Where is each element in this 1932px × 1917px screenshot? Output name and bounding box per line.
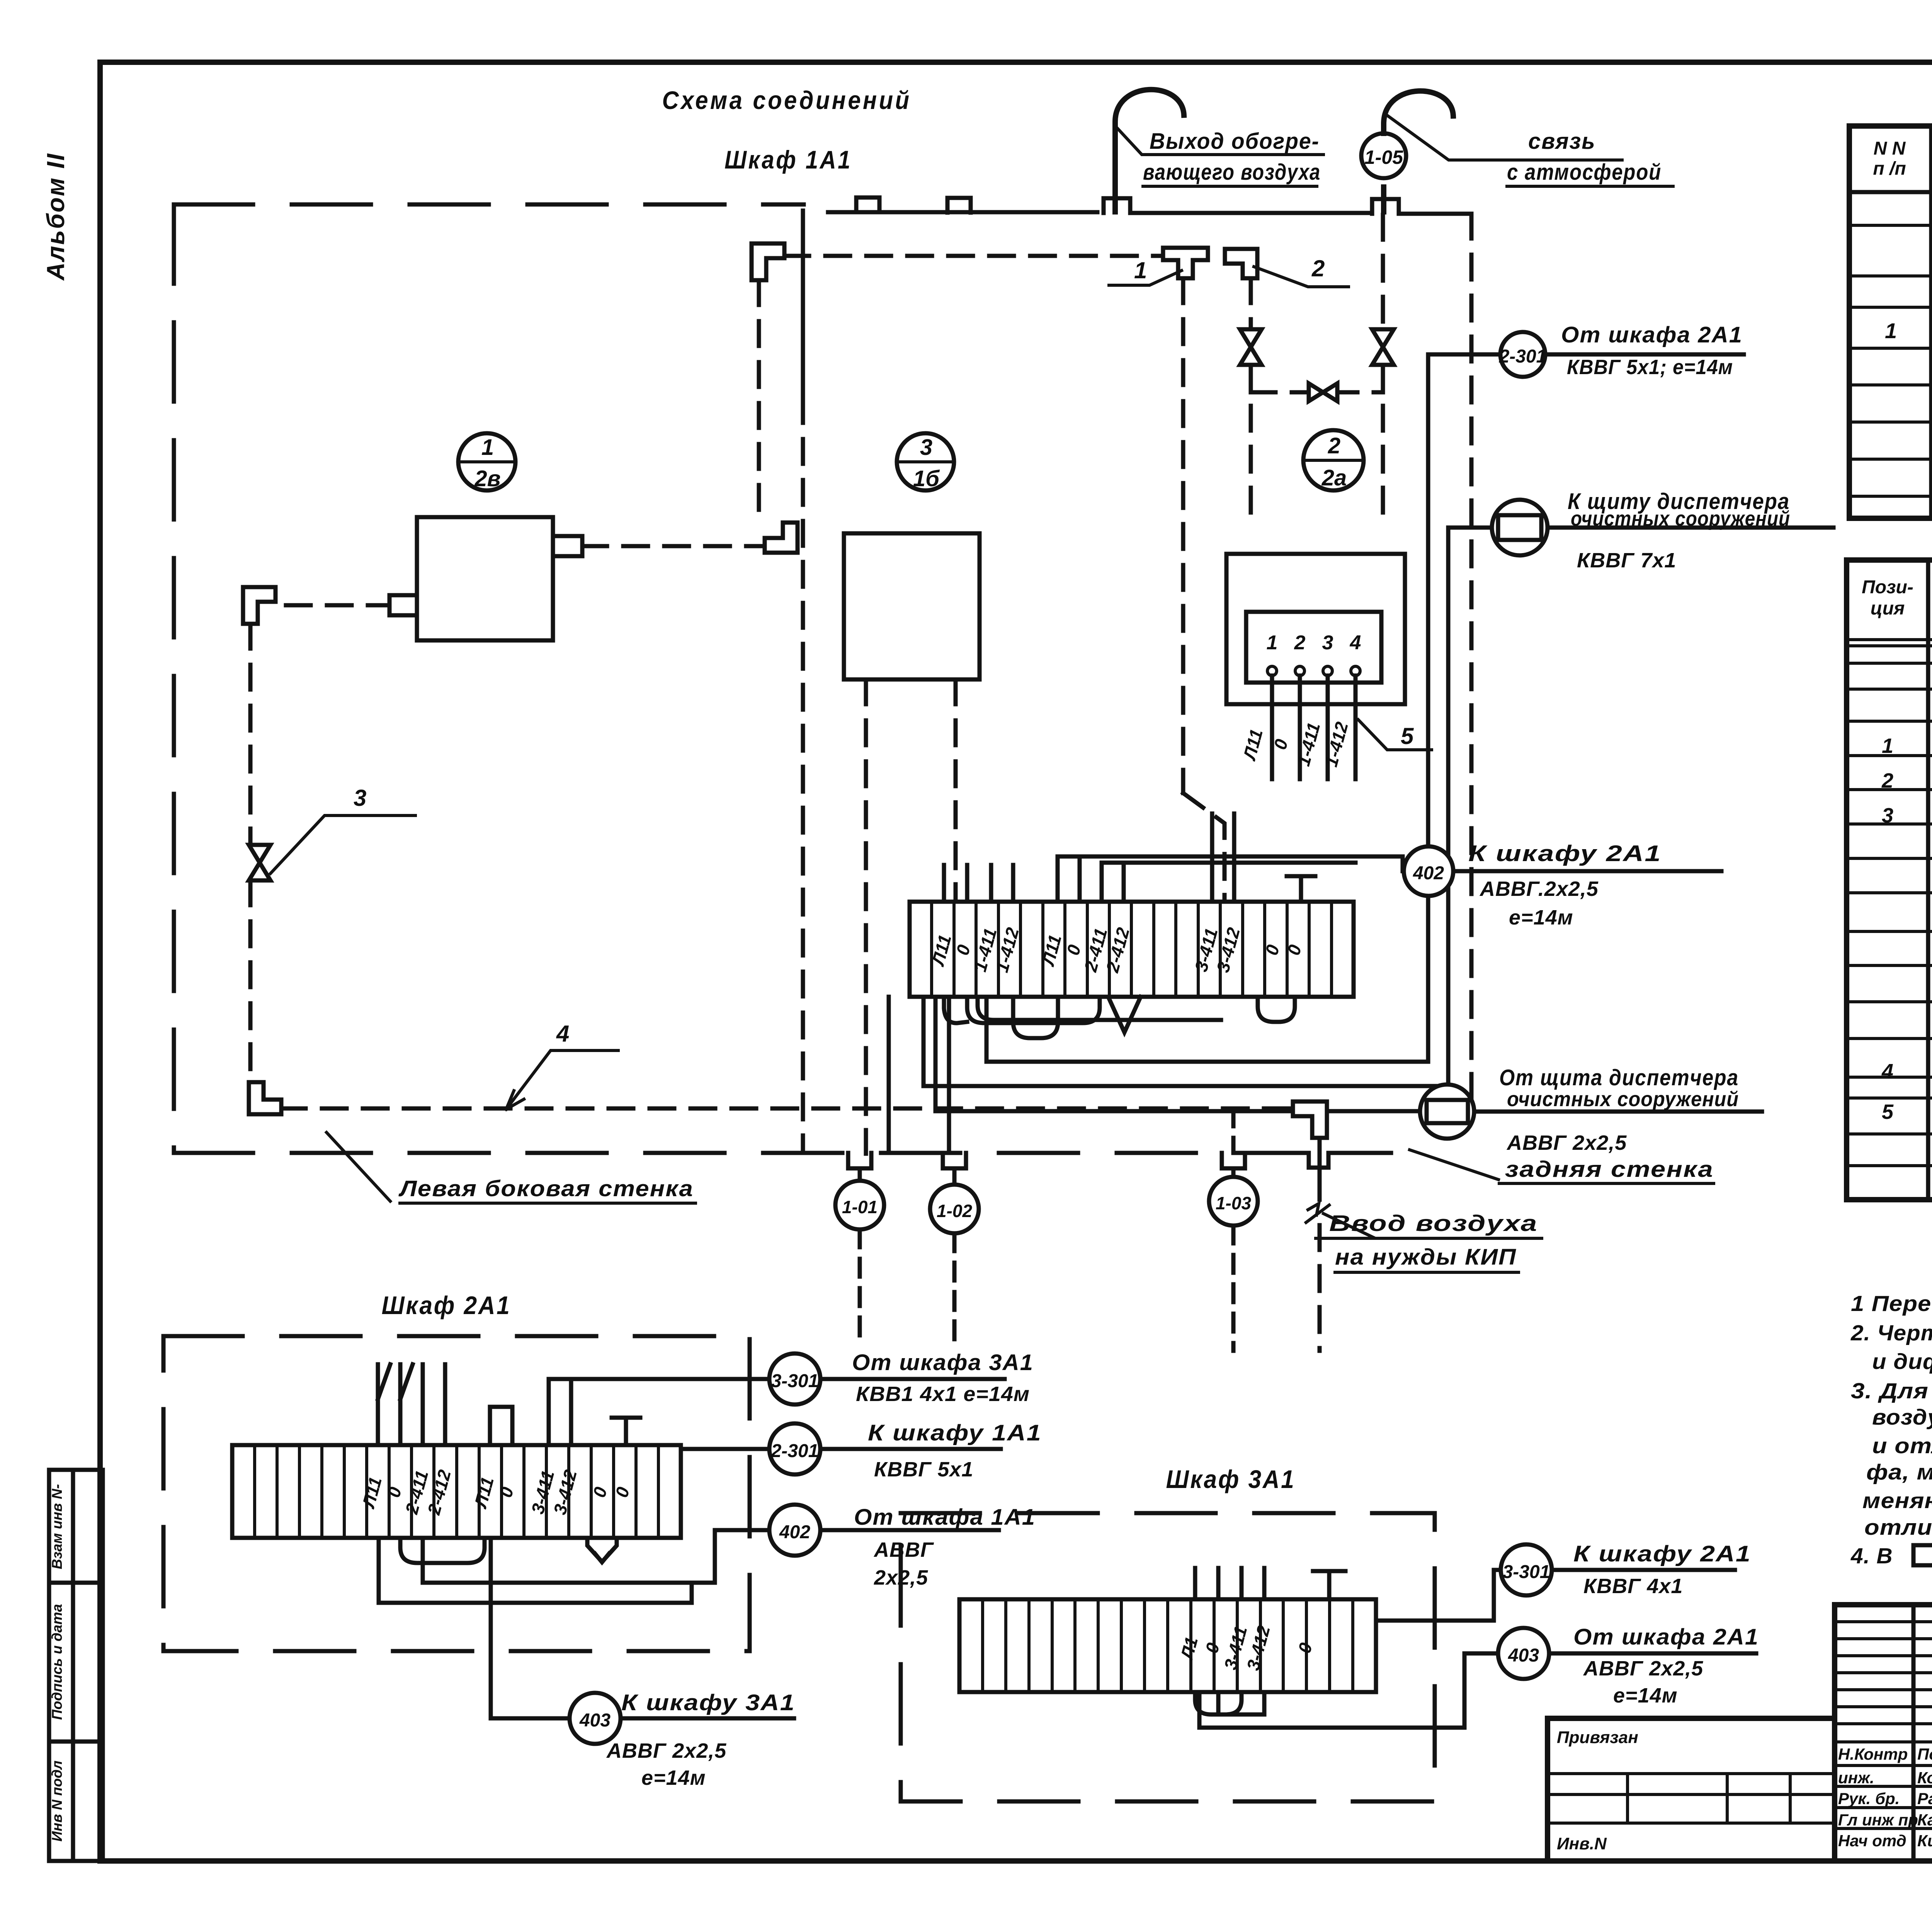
connector circle 3-301 (2A1) (769, 1353, 1005, 1405)
impulse tube box1 to elbow (582, 544, 765, 548)
svg-text:Кильметов: Кильметов (1917, 1832, 1932, 1850)
inner terminal box (1246, 612, 1381, 683)
wire bus B under XT2 (379, 1538, 692, 1603)
connector circle 403 (3A1) (1498, 1628, 1756, 1679)
svg-text:4: 4 (1881, 1060, 1893, 1083)
wall tab (1104, 198, 1130, 213)
table2 header texts (1862, 577, 1932, 619)
wire loop under XT1 b (967, 997, 1100, 1023)
svg-text:2: 2 (1294, 632, 1306, 654)
pin 1 (1267, 666, 1277, 676)
valve pos.3 left (1240, 329, 1262, 365)
impulse tube below valve (1249, 365, 1253, 514)
wire under XT3 to 403 (1199, 1653, 1498, 1728)
svg-text:е=14м: е=14м (1509, 906, 1573, 929)
left margin stamp strip (49, 1470, 103, 1861)
T-bar above XT3 (1313, 1571, 1345, 1599)
gooseneck2 label leader (1388, 116, 1622, 160)
label svyaz s atmosferoy (1507, 129, 1673, 186)
svg-text:связь: связь (1528, 129, 1596, 154)
svg-text:е=14м: е=14м (641, 1766, 706, 1789)
pin wire labels (1239, 720, 1352, 769)
connector circle ot shchita (rect symbol) (1420, 1084, 1762, 1139)
connector circle to dispatcher shield (1448, 500, 1833, 555)
label ot shkafa 1A1 (854, 1505, 1036, 1589)
impulse tube tee down (1181, 278, 1185, 793)
T-bar symbol above XT1 (1287, 876, 1315, 902)
label k shkafu 3A1 (606, 1690, 795, 1789)
T-bar above XT2 (612, 1418, 640, 1445)
component 1 box (difmanometer) (417, 517, 553, 640)
notes text block (1850, 1291, 1932, 1568)
svg-text:К шкафу 2А1: К шкафу 2А1 (1573, 1541, 1751, 1566)
svg-text:3: 3 (1882, 804, 1893, 827)
svg-text:отличаются количеством: отличаются количеством и номерами отходя… (1864, 1515, 1932, 1540)
impulse tube cross link (1251, 390, 1383, 395)
label k shchitu dispetchera (1568, 489, 1790, 572)
svg-text:инж.: инж. (1838, 1769, 1874, 1787)
wire risers to bus1 (1058, 856, 1080, 902)
bottom wall tab 1-01 (848, 1153, 871, 1168)
svg-text:п /п: п /п (1873, 158, 1906, 179)
terminal labels XT1 (927, 925, 1305, 975)
wires above XT2 (378, 1364, 445, 1445)
svg-text:Выход обогре-: Выход обогре- (1150, 129, 1320, 154)
svg-text:АВВГ 2х2,5: АВВГ 2х2,5 (1583, 1657, 1703, 1680)
wire bus2 (1102, 861, 1355, 865)
gooseneck vent pipe 1 (1115, 90, 1184, 212)
callout circle 3/1b (897, 433, 954, 491)
cabinet 1A1 partition wall (801, 211, 805, 398)
elbow fitting right of tee (pos.2) (1225, 249, 1257, 278)
wire XT3 to 3-301 (1376, 1570, 1501, 1621)
wire XT2 to 2-301 (681, 1447, 769, 1451)
connector circle 1-02 (930, 1168, 979, 1341)
pin wire 1-412 (1354, 676, 1358, 779)
impulse tube left vertical lower (248, 880, 253, 1082)
svg-text:От щита диспетчера: От щита диспетчера (1499, 1065, 1739, 1090)
svg-text:с атмосферой: с атмосферой (1507, 160, 1662, 185)
gooseneck 2 upper (1384, 91, 1453, 133)
elbow fitting top left (pos.2) (752, 243, 784, 280)
terminal labels XT3 (1176, 1623, 1316, 1673)
svg-text:1: 1 (481, 435, 494, 460)
label 4 leader (506, 1021, 618, 1109)
wire XT2 to 403 (491, 1538, 570, 1718)
pin 2 (1295, 666, 1304, 676)
svg-text:КВВГ 4х1: КВВГ 4х1 (1583, 1575, 1683, 1598)
wire vee under XT1 (1108, 997, 1141, 1032)
privyazan box (1548, 1718, 1835, 1861)
impulse tube elbow2 down (1249, 278, 1253, 329)
impulse tube box1 left (286, 603, 389, 608)
svg-text:4. В: 4. В (1850, 1544, 1893, 1568)
rear wall notch at air inlet (1309, 1153, 1391, 1168)
terminal strip XT1 (910, 902, 1354, 997)
impulse tube vertical between elbows (757, 280, 761, 523)
svg-text:402: 402 (1413, 863, 1444, 884)
label k shkafu 2A1 (1468, 841, 1662, 929)
svg-text:Рук. бр.: Рук. бр. (1838, 1789, 1900, 1808)
wire stubs above XT1 (944, 865, 1013, 902)
svg-text:Шкаф 1А1: Шкаф 1А1 (724, 145, 852, 174)
svg-text:очистных сооружений: очистных сооружений (1507, 1088, 1739, 1111)
label 3 leader (270, 785, 415, 873)
svg-text:3-301: 3-301 (1503, 1562, 1550, 1582)
svg-text:АВВГ 2х2,5: АВВГ 2х2,5 (1506, 1131, 1627, 1154)
svg-text:АВВГ 2х2,5: АВВГ 2х2,5 (606, 1739, 726, 1762)
svg-text:1-01: 1-01 (842, 1197, 878, 1217)
svg-text:3: 3 (1322, 632, 1333, 654)
wall tab (856, 197, 879, 212)
valve pos.3 horizontal (1309, 383, 1337, 401)
svg-text:1б: 1б (913, 466, 940, 491)
svg-text:2-301: 2-301 (1499, 346, 1547, 367)
svg-text:4: 4 (1350, 632, 1361, 654)
svg-text:Альбом II: Альбом II (42, 153, 70, 281)
svg-text:1: 1 (1267, 632, 1278, 654)
connector circle 2-301 (1428, 332, 1744, 377)
label k shkafu 2A1 (3A1) (1573, 1541, 1751, 1598)
svg-text:1-03: 1-03 (1216, 1193, 1251, 1213)
wall tab (1372, 199, 1399, 214)
svg-text:Инв.N: Инв.N (1557, 1834, 1607, 1853)
svg-text:К шкафу 2А1: К шкафу 2А1 (1468, 841, 1662, 866)
wire jogs above XT2 (378, 1364, 413, 1399)
title block central column (1835, 1605, 1932, 1861)
wire loop under XT1 c (1013, 997, 1058, 1038)
svg-text:Н.Контр: Н.Контр (1838, 1745, 1908, 1763)
svg-text:КВВ1 4х1 е=14м: КВВ1 4х1 е=14м (856, 1382, 1030, 1406)
cabinet right wall dashed (1469, 214, 1474, 1108)
elbow fitting left (pos.2) (243, 587, 276, 624)
wire arrow under XT2 (587, 1538, 617, 1562)
svg-text:3-301: 3-301 (771, 1371, 819, 1391)
table2 data rows (1881, 733, 1932, 905)
pin numbers (1267, 632, 1361, 654)
impulse tube from box3 left (864, 679, 868, 1154)
svg-text:Левая боковая стенка: Левая боковая стенка (398, 1176, 694, 1201)
svg-text:воздухе и дифманометром на: воздухе и дифманометром на иловой смеси … (1872, 1405, 1932, 1430)
impulse tube right vertical (1381, 215, 1385, 514)
component 2 box (difmanometer 2) (1226, 554, 1405, 704)
svg-text:От шкафа 3А1: От шкафа 3А1 (852, 1350, 1034, 1375)
svg-text:АВВГ: АВВГ (873, 1538, 934, 1561)
connector circle 2-301 (2A1) (769, 1423, 1001, 1474)
wire bus4 under XT1 (986, 354, 1428, 1062)
pin 3 (1323, 666, 1332, 676)
svg-text:2: 2 (1881, 769, 1893, 792)
wire stub under XT3 (1218, 1692, 1264, 1714)
box1 right stub (553, 536, 582, 556)
svg-text:N N: N N (1874, 138, 1906, 159)
wire risers above XT2 (490, 1407, 512, 1445)
svg-text:403: 403 (1508, 1645, 1539, 1666)
svg-text:2. Чертеж выполнен для шкафа: 2. Чертеж выполнен для шкафа 1А1 с дифма… (1850, 1321, 1932, 1345)
wire risers mid pair (1212, 814, 1234, 902)
svg-text:Шкаф 2А1: Шкаф 2А1 (382, 1291, 511, 1319)
svg-text:ция: ция (1871, 598, 1905, 619)
svg-text:402: 402 (779, 1522, 810, 1542)
impulse tube elbow to tee (784, 254, 1161, 258)
table1 row 1 texts (1885, 318, 1932, 457)
svg-text:Позднякова: Позднякова (1917, 1745, 1932, 1763)
svg-text:и отличаются цифровой ин: и отличаются цифровой индексацией в нача… (1872, 1433, 1932, 1458)
svg-text:Нач отд: Нач отд (1838, 1832, 1906, 1850)
connector circle 1-05 (1361, 133, 1406, 178)
label ot shkafa 2A1 (1561, 322, 1743, 379)
signature names (1838, 1745, 1932, 1850)
svg-text:Инв N подл: Инв N подл (49, 1760, 65, 1842)
connector circle 403 (2A1) (570, 1693, 794, 1744)
svg-text:Гл инж пр: Гл инж пр (1838, 1811, 1918, 1829)
svg-text:К шкафу 1А1: К шкафу 1А1 (868, 1420, 1042, 1445)
label 1 leader (1109, 257, 1182, 285)
svg-text:КВВГ 5х1; е=14м: КВВГ 5х1; е=14м (1567, 356, 1733, 379)
cabinet top solid wall (828, 212, 1471, 214)
svg-text:Радюшкин: Радюшкин (1917, 1789, 1932, 1808)
label ot shchita dispetchera (1499, 1065, 1739, 1154)
equipment table top right (1849, 126, 1932, 518)
svg-text:очистных сооружений: очистных сооружений (1571, 507, 1790, 530)
impulse tube from box3 right (954, 679, 958, 902)
wall tab (947, 198, 971, 213)
svg-text:Капатульский: Капатульский (1917, 1811, 1932, 1829)
connector circle 402 (1404, 846, 1453, 896)
terminal labels XT2 (358, 1468, 633, 1517)
svg-text:1: 1 (1882, 734, 1893, 758)
pin wire 1-411 (1326, 676, 1330, 779)
tee fitting (pos.1) (1163, 248, 1208, 278)
impulse tube left vertical upper (248, 624, 253, 845)
materials table right (1847, 560, 1932, 1200)
svg-text:фа, маркировкой жил кабел: фа, маркировкой жил кабелей и импульсных… (1866, 1460, 1932, 1485)
svg-text:вающего воздуха: вающего воздуха (1143, 160, 1321, 185)
wire XT1 to connector 1-01 (887, 997, 891, 1153)
svg-text:2: 2 (1328, 433, 1340, 458)
label k shkafu 1A1 (868, 1420, 1042, 1481)
air inlet arrow mark (1306, 1204, 1329, 1222)
svg-text:К шкафу 3А1: К шкафу 3А1 (621, 1690, 795, 1715)
svg-text:Шкаф 3А1: Шкаф 3А1 (1166, 1465, 1296, 1493)
wire loops under XT3 (1195, 1692, 1242, 1714)
label zadnyaya stenka (1410, 1150, 1714, 1183)
wire loop under XT1 d (1258, 997, 1295, 1022)
wire loop under XT2 (400, 1538, 485, 1563)
valve pos.3 right (1372, 329, 1394, 365)
svg-text:Козлов: Козлов (1917, 1769, 1932, 1787)
connector circle 1-01 (835, 1168, 884, 1337)
wire bus A under XT2 (423, 1530, 769, 1583)
svg-text:3: 3 (354, 785, 366, 811)
wire bus1 to circle 402 (1058, 856, 1721, 871)
svg-text:КВВГ 7х1: КВВГ 7х1 (1577, 549, 1676, 572)
gooseneck1 label leader (1117, 128, 1323, 155)
valve 3 on left tube (249, 845, 270, 880)
connector circle 402 (2A1) (769, 1505, 999, 1556)
impulse tube dogleg (1183, 793, 1225, 902)
table2 materials rows (1881, 1060, 1932, 1163)
svg-text:е=14м: е=14м (1613, 1684, 1678, 1707)
svg-text:меняются на соответствующи: меняются на соответствующий номер секции… (1862, 1488, 1932, 1513)
box1 left stub (389, 595, 417, 615)
rear wall inner dashed (281, 1107, 1293, 1111)
label 2 leader (1254, 255, 1349, 287)
label ot shkafa 2A1 (3A1) (1573, 1624, 1759, 1707)
svg-text:2: 2 (1311, 255, 1325, 281)
wire XT1 to connector 1-02 (947, 997, 951, 1153)
elbow fitting air inlet (1293, 1102, 1327, 1138)
svg-text:КВВГ 5х1: КВВГ 5х1 (874, 1458, 973, 1481)
cabinet 2A1 dashed outline (163, 1336, 750, 1651)
air inlet tube (1318, 1138, 1322, 1175)
svg-text:1 Перечень изделий и ма: 1 Перечень изделий и материалов приведен… (1851, 1291, 1932, 1316)
label vvod vozduha (1316, 1211, 1542, 1272)
callout circle 1/2v (458, 433, 515, 491)
svg-text:и дифманометром на иловой: и дифманометром на иловой смеси для секц… (1872, 1349, 1932, 1374)
svg-text:на нужды КИП: на нужды КИП (1335, 1245, 1517, 1270)
wire risers to bus2 (1102, 863, 1124, 902)
svg-text:5: 5 (1882, 1100, 1894, 1124)
wire bus5 under XT1 (923, 528, 1448, 1086)
component 3 box (844, 533, 980, 679)
label ot shkafa 3A1 (852, 1350, 1034, 1406)
wire bus3 under XT1 (978, 997, 1221, 1020)
svg-text:1: 1 (1134, 257, 1147, 283)
svg-text:4: 4 (556, 1021, 569, 1047)
wire bus to 3-301 (549, 1379, 769, 1445)
pin 4 (1351, 666, 1360, 676)
svg-text:2в: 2в (474, 466, 500, 491)
svg-text:5: 5 (1401, 723, 1414, 749)
elbow fitting bottom-left (pos.2) (249, 1082, 281, 1114)
svg-text:2а: 2а (1321, 465, 1347, 490)
svg-text:3. Для 2 и 3 секций аэроте: 3. Для 2 и 3 секций аэротенков шкафы с д… (1851, 1379, 1932, 1403)
svg-text:АВВГ.2х2,5: АВВГ.2х2,5 (1479, 877, 1599, 901)
gooseneck vent pipe 2 lower dashed (1381, 178, 1386, 212)
terminal strip XT2 (232, 1445, 681, 1538)
callout circle 2/2a (1303, 430, 1364, 490)
svg-text:3: 3 (920, 435, 932, 460)
svg-text:задняя стенка: задняя стенка (1505, 1157, 1714, 1182)
cabinet 1A1 dashed outline (174, 204, 1306, 1153)
label 5 leader (1358, 720, 1432, 750)
svg-text:От шкафа 1А1: От шкафа 1А1 (854, 1505, 1036, 1530)
label vyhod vozduha (1143, 129, 1321, 186)
wire to shield circle (935, 997, 1419, 1111)
svg-text:От шкафа 2А1: От шкафа 2А1 (1561, 322, 1743, 347)
svg-text:Подпись и дата: Подпись и дата (49, 1604, 65, 1720)
svg-text:Схема соединений: Схема соединений (662, 86, 912, 114)
svg-text:1-02: 1-02 (937, 1201, 972, 1221)
wire loop under XT1 a (944, 997, 967, 1023)
table1 header texts (1873, 134, 1932, 187)
connector circle 1-03 (1209, 1108, 1258, 1351)
svg-text:403: 403 (579, 1710, 611, 1731)
wires above XT3 (1195, 1568, 1264, 1599)
svg-text:2-301: 2-301 (771, 1441, 819, 1461)
terminal strip XT3 (959, 1599, 1376, 1692)
svg-text:От шкафа 2А1: От шкафа 2А1 (1573, 1624, 1759, 1650)
pin wire 0 (1298, 676, 1302, 779)
elbow fitting mid (pos.2) (765, 523, 798, 553)
cabinet 3A1 dashed outline (901, 1513, 1435, 1801)
svg-text:1: 1 (1885, 318, 1897, 343)
pin wire L11 (1270, 676, 1274, 779)
bottom wall tab 1-02 (943, 1153, 966, 1168)
svg-text:Пози-: Пози- (1862, 577, 1913, 598)
svg-text:Взам инв N-: Взам инв N- (49, 1484, 65, 1569)
bottom wall tab 1-03 (1222, 1153, 1245, 1168)
svg-text:Привязан: Привязан (1557, 1728, 1638, 1747)
svg-text:1-05: 1-05 (1364, 146, 1403, 168)
label levaya bokovaya stenka (327, 1132, 696, 1203)
connector circle 3-301 (3A1) (1501, 1544, 1735, 1595)
